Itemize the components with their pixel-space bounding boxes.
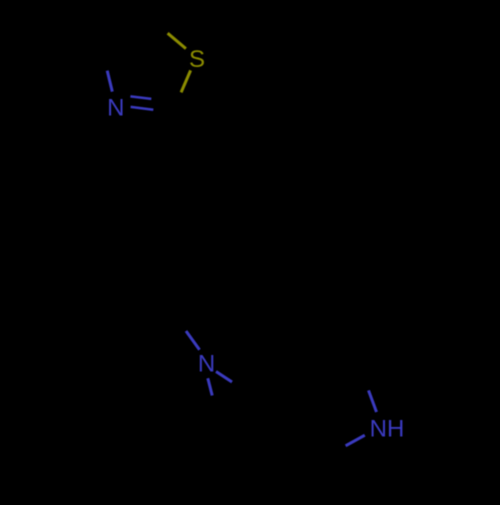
bond C5-S (olive half) [168,33,186,48]
double bond N3=C2 lower line (blue half) [131,107,154,110]
bond N-CH2 down (blue half) [208,378,212,395]
double bond N3=C2 upper line (blue half) [130,96,151,99]
svg-text:S: S [189,46,205,73]
svg-text:NH: NH [370,415,405,442]
bond S-C2 (olive half) [181,70,191,92]
bond N-CH2 right (blue half) [216,372,232,383]
bond N3-C4 (blue half) [107,71,112,92]
bond N-CH2 up-left (blue half) [186,331,200,350]
bond NH-CH2 up (blue half) [369,390,377,412]
bond NH-CH2 down-left (blue half) [346,435,365,446]
svg-text:N: N [198,351,215,378]
svg-text:N: N [107,94,124,121]
